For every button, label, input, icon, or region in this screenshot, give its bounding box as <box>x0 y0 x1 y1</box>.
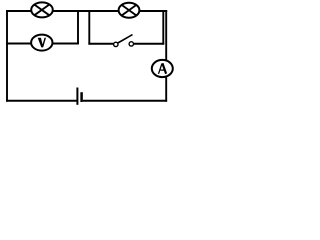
wire switch-row left segment <box>88 43 113 45</box>
battery cell long plate <box>76 88 78 105</box>
battery cell short plate <box>80 92 83 102</box>
wire outer right vertical lower (ammeter to bottom wire) <box>165 77 167 101</box>
wire top-right segment (lamp L2 to right side) <box>139 10 167 12</box>
wire top-left segment (left vertical to lamp L1) <box>6 10 31 12</box>
wire vertical left side of switch branch <box>88 10 90 45</box>
lamp L2 <box>119 3 140 18</box>
wire voltmeter-row left segment <box>6 43 31 45</box>
wire bottom-right segment (battery to right vertical) <box>83 100 167 102</box>
ammeter A <box>152 60 173 77</box>
voltmeter V <box>31 35 52 51</box>
wire bottom-left segment (left vertical to battery) <box>6 100 77 102</box>
switch S <box>114 35 134 47</box>
wire left vertical <box>6 10 8 102</box>
wire voltmeter-row right segment <box>53 43 79 45</box>
wire switch-row right segment <box>134 43 164 45</box>
wire outer right vertical upper (top wire to ammeter) <box>165 10 167 60</box>
wire vertical right side of voltmeter branch <box>77 10 79 44</box>
lamp L1 <box>31 2 53 17</box>
wire inner right vertical (switch branch to top wire) <box>162 10 164 45</box>
wire top-middle segment (lamp L1 to lamp L2) <box>52 10 119 12</box>
